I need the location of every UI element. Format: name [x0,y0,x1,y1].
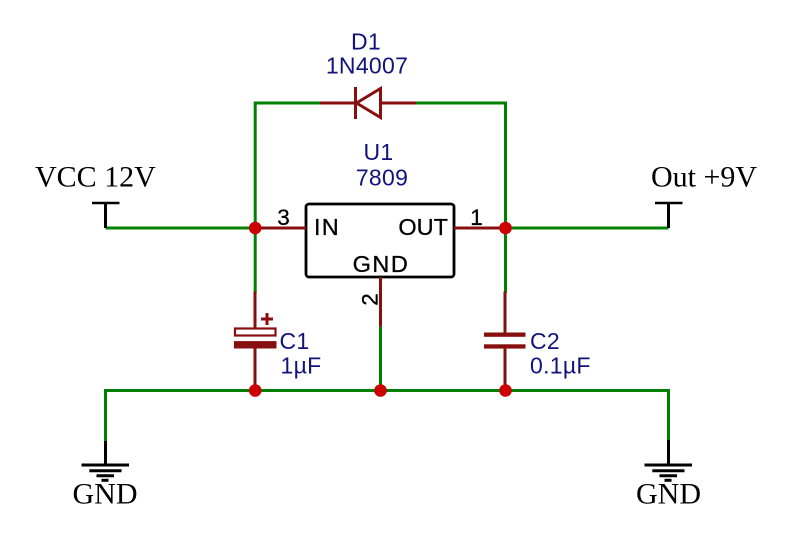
label C1 [280,328,310,354]
svg-text:C2: C2 [530,328,560,354]
wire right vertical from top rail to node VOUT [504,102,507,229]
label C2 [530,328,560,354]
svg-text:U1: U1 [363,139,393,165]
svg-text:0.1µF: 0.1µF [530,353,591,379]
svg-text:GND: GND [353,251,410,277]
label D1 [351,29,381,55]
svg-text:2: 2 [358,293,383,306]
junction C2 on ground rail [499,384,512,397]
op-amp U1 body (7809 regulator box) [306,204,454,277]
label GND right [636,478,701,511]
port VCC 12V [92,203,120,228]
ground symbol left [82,441,130,480]
wire bottom ground rail [106,389,669,392]
svg-text:VCC 12V: VCC 12V [35,161,156,194]
pin number 2 (rotated) [358,293,383,306]
svg-text:3: 3 [277,205,290,230]
wire left drop to GND symbol [104,389,107,441]
ground symbol right [645,440,693,480]
svg-text:Out +9V: Out +9V [651,161,757,194]
pin number 1 [470,205,483,230]
wire top rail right segment [416,102,506,105]
svg-text:D1: D1 [351,29,381,55]
capacitor C1 (polarized) [234,292,277,391]
wire from node VOUT down to C2 [504,228,507,293]
svg-text:7809: 7809 [356,165,408,191]
U1 pin 1 lead (OUT) [454,227,506,230]
wire right drop to GND symbol [667,389,670,440]
label U1 [363,139,393,165]
wire left vertical from top rail to node VIN [254,102,257,229]
junction C1 on ground rail [249,384,262,397]
value 0.1uF [530,353,591,379]
wire from U1 pin 2 down to ground rail [379,326,382,391]
junction pin2 on ground rail [374,384,387,397]
wire top rail left segment [255,102,320,105]
svg-text:1N4007: 1N4007 [326,53,408,79]
svg-text:C1: C1 [280,328,310,354]
value 1N4007 [326,53,408,79]
label GND left [73,478,138,511]
label VCC 12V [35,161,156,194]
port Out +9V [655,203,683,228]
capacitor C2 [484,292,526,391]
diode D1 [320,87,416,119]
wire from port VCC to node VIN [106,227,256,230]
U1 pin 2 lead (GND) [379,277,382,327]
junction node VOUT [499,222,512,235]
svg-text:GND: GND [636,478,701,511]
svg-text:1: 1 [470,205,483,230]
pin number 3 [277,205,290,230]
svg-text:IN: IN [314,214,340,240]
svg-text:1µF: 1µF [281,353,322,379]
pin name GND [353,251,410,277]
value 7809 [356,165,408,191]
value 1uF [281,353,322,379]
pin name IN [314,214,340,240]
wire from node VIN down to C1 [254,228,257,293]
U1 pin 3 lead (IN) [255,227,306,230]
wire from node VOUT to port Out [506,227,669,230]
pin name OUT [398,214,448,240]
svg-text:GND: GND [73,478,138,511]
junction node VIN [249,222,262,235]
label Out +9V [651,161,757,194]
svg-text:OUT: OUT [398,214,448,240]
